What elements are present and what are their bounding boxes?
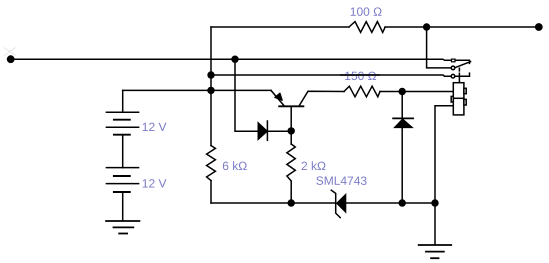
battery interconnect lead bbox=[122, 135, 124, 168]
wire y=75 overlay over 150 ohm label bbox=[340, 74, 380, 76]
ground symbol left bar1 bbox=[106, 220, 139, 222]
battery B1 long plate 2 bbox=[106, 126, 138, 128]
battery B1 short plate 2 bbox=[114, 134, 130, 136]
jack J1 left bump bbox=[451, 96, 453, 102]
node dot 2k bottom on rail bbox=[288, 199, 295, 206]
node dot base junction bbox=[288, 127, 295, 134]
wire jack sleeve to ground vertical x=435 bbox=[435, 106, 453, 203]
resistor 2 kohm zigzag vertical bbox=[287, 144, 295, 181]
wire top rail right of R1 bbox=[385, 26, 539, 28]
wire left vertical bus x=211 lower bbox=[210, 181, 212, 203]
jack J1 ring tick to body bbox=[458, 73, 460, 83]
ground symbol right bar3 bbox=[431, 257, 438, 259]
node dot input/x235 junction bbox=[231, 56, 238, 63]
svg-text:12 V: 12 V bbox=[142, 177, 167, 191]
resistor R 150 ohm zigzag bbox=[344, 86, 380, 97]
jack J1 right bump 1 bbox=[464, 88, 466, 93]
wire diode D1 to base node bbox=[267, 130, 291, 132]
wire x=235 vertical to diode bbox=[235, 59, 258, 131]
terminal dot top right bbox=[535, 23, 543, 31]
wire y=75 feedback line bbox=[211, 75, 451, 76]
wire left vertical bus x=211 upper bbox=[210, 27, 212, 146]
svg-text:6 kΩ: 6 kΩ bbox=[222, 159, 247, 173]
battery B2 short plate 1 bbox=[114, 175, 130, 177]
ground right lead bbox=[434, 203, 436, 244]
wire input line y=59 with left terminal bbox=[11, 59, 452, 60]
jack J1 body divider bbox=[453, 97, 464, 99]
wire bottom rail right of zener bbox=[346, 202, 435, 204]
transistor Q1 base vertical bbox=[290, 107, 292, 144]
svg-text:100 Ω: 100 Ω bbox=[350, 5, 382, 19]
jack J1 row2 tip tick bbox=[458, 68, 460, 71]
ground symbol right bar1 bbox=[419, 244, 452, 246]
diode D2 bottom lead bbox=[401, 128, 403, 203]
transistor Q1 PNP emitter lead bbox=[271, 90, 284, 105]
battery B1 long plate 1 bbox=[106, 111, 138, 113]
svg-text:150 Ω: 150 Ω bbox=[344, 69, 376, 83]
svg-text:12 V: 12 V bbox=[142, 120, 167, 134]
jack J1 switch row1 contact square bbox=[452, 59, 456, 62]
wire top rail from node A to output bbox=[211, 26, 349, 28]
transistor Q1 emitter arrow (PNP, pointing to base bar) bbox=[275, 93, 282, 100]
node dot at diode D2 top bbox=[399, 88, 406, 95]
jack J1 body rectangle bbox=[453, 83, 464, 115]
diode D2 top lead bbox=[401, 92, 403, 118]
transistor Q1 collector lead bbox=[299, 91, 344, 105]
node dot ground junction bbox=[431, 199, 438, 206]
zener SML4743 triangle apex left bbox=[337, 194, 346, 212]
battery B2 long plate 2 bbox=[106, 183, 138, 185]
diode D2 cathode bar bbox=[393, 117, 413, 119]
jack J1 right bump 2 bbox=[464, 99, 466, 105]
svg-text:SML4743: SML4743 bbox=[316, 174, 368, 188]
ground symbol right bar2 bbox=[426, 251, 444, 253]
battery B2 short plate 2 bbox=[114, 191, 130, 193]
jack J1 switch row1 arm with end tick bbox=[455, 60, 469, 63]
zener SML4743 cathode bar with tails bbox=[331, 190, 340, 217]
artifact faint x near input terminal bbox=[4, 48, 16, 56]
jack J1 row2 pivot circle bbox=[451, 66, 455, 70]
jack J1 row2 blade diagonal bbox=[455, 62, 471, 68]
jack J1 row2 wire from node A bbox=[427, 27, 452, 68]
jack J1 row3 arm with end tick bbox=[455, 73, 470, 76]
battery B1 short plate 1 bbox=[114, 119, 130, 121]
terminal dot left input bbox=[7, 55, 15, 63]
diode D2 triangle apex up bbox=[394, 119, 412, 128]
wire battery positive to emitter y=90.4 bbox=[123, 89, 271, 91]
node dot x211 y75 bbox=[207, 71, 214, 78]
ground symbol left bar3 bbox=[119, 233, 127, 235]
node dot x211 y90.4 bbox=[207, 87, 214, 94]
resistor 6 kohm zigzag vertical bbox=[207, 146, 216, 181]
diode D1 triangle bbox=[258, 122, 267, 139]
battery bottom lead to ground bbox=[122, 192, 124, 221]
wire 150ohm to jack bbox=[380, 91, 453, 93]
diode D1 cathode bar bbox=[266, 121, 268, 140]
resistor R 100 ohm zigzag bbox=[349, 22, 385, 33]
transistor Q1 base bar bbox=[279, 105, 303, 107]
node dot top at x=426.5 bbox=[423, 23, 430, 30]
jack J1 row3 pivot circle bbox=[451, 74, 455, 78]
wire 2k bottom to rail bbox=[290, 181, 292, 203]
node dot D2 bottom on rail bbox=[399, 199, 406, 206]
wire bottom rail left of zener bbox=[211, 202, 336, 204]
svg-text:2 kΩ: 2 kΩ bbox=[301, 159, 326, 173]
ground symbol left bar2 bbox=[114, 226, 134, 228]
battery B1 top lead bbox=[122, 90, 124, 112]
battery B2 long plate 1 bbox=[106, 167, 138, 169]
